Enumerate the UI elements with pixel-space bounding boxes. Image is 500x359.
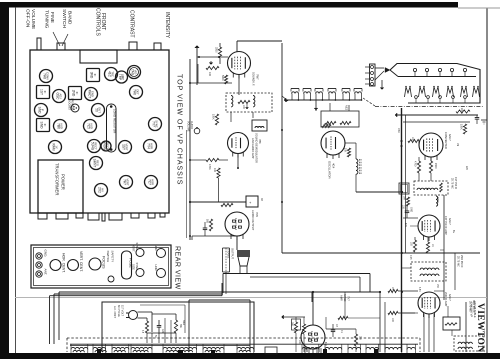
- electrolytic cap box: [246, 196, 258, 207]
- leader line band switch: [62, 34, 68, 46]
- svg-text:7W7: 7W7: [256, 74, 260, 80]
- svg-text:SWITCH: SWITCH: [106, 251, 110, 263]
- svg-text:2ND PIX IF: 2ND PIX IF: [460, 255, 463, 268]
- output trans drop wire: [225, 272, 227, 294]
- svg-text:IF: IF: [93, 74, 97, 77]
- svg-text:5A: 5A: [154, 335, 157, 338]
- osc coil: [356, 159, 358, 174]
- focus knob: [89, 258, 101, 270]
- svg-text:SOUND DEMODULATOR: SOUND DEMODULATOR: [255, 133, 259, 163]
- svg-text:6.8K: 6.8K: [418, 287, 420, 292]
- demod wires: [237, 154, 239, 169]
- svg-text:100K: 100K: [460, 124, 463, 130]
- 2nd pix IF dashed box: [411, 262, 446, 281]
- svg-text:SW2: SW2: [182, 320, 184, 326]
- ac plug: [129, 311, 138, 320]
- svg-text:SAFETY: SAFETY: [110, 251, 114, 263]
- audio box left drop: [222, 274, 224, 294]
- svg-text:25.75 MC: 25.75 MC: [457, 256, 460, 267]
- tube socket det: [130, 86, 143, 99]
- svg-text:220K: 220K: [460, 108, 463, 114]
- svg-text:TRC: TRC: [111, 71, 115, 77]
- contrast control shaft: [129, 42, 137, 50]
- svg-text:OSC: OSC: [397, 128, 399, 133]
- svg-text:ANT.: ANT.: [44, 269, 48, 276]
- tube 7W7 sound IF: [228, 52, 251, 75]
- 3rd if resistor row: [388, 289, 398, 292]
- svg-text:AUD: AUD: [60, 123, 64, 129]
- svg-text:A.C. ONLY: A.C. ONLY: [113, 306, 116, 319]
- cathode resistor 500: [209, 219, 212, 231]
- disc out wires: [230, 112, 232, 122]
- svg-text:OUT: OUT: [98, 107, 102, 113]
- svg-text:AND AUDIO AMP: AND AUDIO AMP: [251, 138, 255, 159]
- svg-text:1K: 1K: [391, 287, 393, 290]
- svg-text:GN: GN: [161, 329, 163, 333]
- sync tube pin wires: [304, 348, 306, 353]
- chassis bottom socket stubs: [38, 213, 47, 219]
- tube socket audio out: [84, 120, 97, 133]
- tube socket 5u4 rect: [88, 140, 101, 153]
- grid coil: [436, 196, 438, 206]
- coupling cap stack: [405, 210, 410, 212]
- page left edge line: [15, 7, 17, 353]
- antenna bus wire: [285, 99, 362, 101]
- antenna coil row: [291, 88, 299, 90]
- discriminator dashed box: [226, 93, 272, 112]
- b+ bus main: [401, 108, 403, 352]
- svg-text:VERT: VERT: [126, 178, 130, 185]
- svg-text:FOCUS: FOCUS: [102, 256, 106, 269]
- svg-text:LOAD RESISTOR: LOAD RESISTOR: [113, 109, 117, 134]
- svg-text:VERT: VERT: [125, 143, 129, 150]
- winding second row: [73, 350, 84, 352]
- sync resistor 2: [302, 324, 305, 334]
- svg-text:TRANS.: TRANS.: [227, 249, 231, 259]
- volume control shaft: [37, 38, 41, 50]
- tube socket aux rect: [101, 141, 111, 151]
- svg-text:10K: 10K: [391, 318, 393, 323]
- IF can snd: [37, 119, 50, 132]
- svg-text:CONTROLS: CONTROLS: [95, 8, 101, 36]
- svg-text:BAND: BAND: [66, 11, 72, 25]
- svg-text:VID: VID: [134, 70, 138, 75]
- svg-text:VOLUME: VOLUME: [187, 121, 190, 132]
- agc cap: [475, 117, 480, 119]
- svg-text:470K: 470K: [208, 164, 211, 170]
- svg-text:IF: IF: [43, 91, 47, 94]
- svg-text:0.05: 0.05: [409, 255, 411, 260]
- 2nd if cathode resistors: [413, 240, 416, 252]
- cathode wire: [190, 82, 232, 84]
- line cap: [157, 325, 162, 327]
- IF can 3rd IF: [87, 69, 100, 82]
- svg-text:SYNC.: SYNC.: [135, 263, 139, 271]
- svg-text:390: 390: [291, 322, 294, 327]
- terminal ant: [36, 271, 42, 277]
- volume pot: [206, 66, 219, 69]
- svg-text:3RD: 3RD: [89, 72, 93, 79]
- svg-text:6AC7: 6AC7: [448, 294, 452, 301]
- demod plate resistor: [217, 168, 220, 178]
- ac box inner left drop: [188, 300, 190, 352]
- winding groups: [71, 347, 88, 349]
- down arrow rotor: [381, 80, 383, 89]
- core blob 4: [323, 349, 327, 354]
- eq box: [443, 317, 460, 330]
- svg-text:7Y7: 7Y7: [347, 296, 351, 301]
- svg-text:4G4: 4G4: [332, 163, 336, 169]
- strip wires to switch: [375, 67, 384, 69]
- grid wire: [197, 56, 228, 58]
- svg-text:POWER: POWER: [61, 174, 66, 190]
- front controls opening: [80, 50, 117, 63]
- svg-text:1ST PIX IF AMP: 1ST PIX IF AMP: [444, 216, 448, 235]
- tube socket snd if: [35, 104, 48, 117]
- svg-text:NE2: NE2: [345, 105, 349, 111]
- disc coil 2: [253, 96, 255, 107]
- svg-text:B+: B+: [452, 230, 455, 234]
- svg-text:AMP: AMP: [121, 74, 125, 80]
- disc resistor: [238, 100, 250, 103]
- chassis top view outline: [30, 50, 169, 213]
- hor cent knob: [50, 260, 61, 271]
- tube oscillator: [321, 131, 345, 155]
- svg-text:AUDIO: AUDIO: [190, 121, 193, 129]
- wire left drop 2: [53, 294, 55, 344]
- left rail sound: [189, 59, 191, 240]
- wire bus C right corner: [221, 283, 223, 296]
- junction dots: [189, 82, 191, 84]
- sync feed wire: [312, 292, 314, 325]
- speaker socket: [71, 104, 79, 112]
- sync size jack: [136, 269, 144, 277]
- osc coil wires: [345, 142, 356, 144]
- svg-text:REAR VIEW: REAR VIEW: [174, 246, 181, 290]
- svg-text:REG: REG: [96, 160, 100, 166]
- svg-text:HOR: HOR: [150, 143, 154, 149]
- svg-text:39K: 39K: [359, 336, 361, 341]
- ac box inner top wire: [189, 299, 250, 301]
- rear view panel outer: [31, 245, 171, 288]
- resistor 100K conv: [463, 124, 466, 134]
- sync cap: [331, 329, 336, 331]
- conv cathode resistor 4700: [417, 161, 420, 173]
- line resistor: [145, 321, 148, 333]
- svg-text:AMP.: AMP.: [340, 295, 344, 301]
- svg-text:SYNC.: SYNC.: [135, 243, 139, 251]
- tube socket audio: [54, 120, 67, 133]
- audio bus second wire: [250, 276, 360, 278]
- svg-text:CONVERTER: CONVERTER: [444, 132, 448, 149]
- svg-text:1M: 1M: [456, 143, 458, 146]
- sync coupling resistor: [338, 316, 348, 319]
- sync extra wires: [325, 317, 327, 329]
- svg-text:GND.: GND.: [44, 250, 48, 258]
- ac extra wires: [140, 304, 185, 306]
- bottom black scan border: [0, 353, 500, 359]
- svg-text:AUDIO OUTPUT: AUDIO OUTPUT: [251, 210, 255, 231]
- band switch shaft: [57, 43, 65, 50]
- svg-text:SIZE: SIZE: [132, 264, 136, 270]
- tube 6AC7 2nd pix if: [418, 215, 440, 237]
- svg-text:OFF-ON: OFF-ON: [25, 9, 31, 28]
- b+ bus secondary: [405, 115, 407, 253]
- IF can 1st IF: [37, 86, 50, 99]
- IF can 2nd IF: [69, 87, 82, 100]
- svg-text:500K: 500K: [221, 75, 224, 81]
- tube socket extra: [116, 71, 128, 83]
- sound if plate wire: [237, 40, 282, 42]
- osc inject wire: [403, 121, 470, 123]
- disc arrows: [246, 108, 249, 110]
- tube 7C5 audio output: [225, 212, 249, 236]
- tube socket sync: [149, 118, 162, 131]
- core blob 2: [178, 350, 183, 355]
- svg-text:60 CYCLE: 60 CYCLE: [117, 305, 120, 317]
- winding bus line: [70, 343, 418, 345]
- right extra ticks: [410, 225, 418, 227]
- tube socket vid amp: [128, 66, 141, 79]
- svg-text:HV: HV: [101, 188, 105, 192]
- right column wires: [454, 253, 456, 290]
- svg-text:2ND: 2ND: [71, 90, 75, 97]
- decoupling resistor: [221, 203, 233, 206]
- wire bus C: [50, 295, 223, 297]
- tube 6AC7 converter: [419, 133, 443, 157]
- 3rd if pin wires: [423, 314, 425, 352]
- 7c5 plate wire: [236, 236, 238, 250]
- svg-text:TRANSFORMER: TRANSFORMER: [55, 163, 60, 195]
- dash-dot section line: [375, 106, 483, 108]
- safety switch: [108, 276, 114, 282]
- sync bus left drop: [311, 292, 313, 302]
- svg-text:400: 400: [213, 168, 216, 173]
- svg-text:1K: 1K: [431, 244, 433, 247]
- svg-text:ATV-25 TABLE: ATV-25 TABLE: [473, 301, 476, 318]
- svg-text:117 VOLT: 117 VOLT: [121, 305, 124, 316]
- svg-text:6AC7: 6AC7: [448, 134, 452, 141]
- svg-text:VERT. CENT.: VERT. CENT.: [79, 251, 83, 272]
- svg-text:CONV: CONV: [46, 72, 50, 80]
- svg-text:ADJ: ADJ: [59, 93, 63, 99]
- audio bus second drop: [359, 277, 361, 292]
- svg-text:400: 400: [208, 72, 211, 77]
- tube socket osc adj: [53, 90, 66, 103]
- tube socket vert amp: [120, 176, 133, 189]
- sound if pin wires: [238, 75, 240, 96]
- ne2 box: [321, 111, 359, 127]
- hor jack top: [157, 249, 166, 258]
- tube socket shunt: [90, 157, 103, 170]
- small terminal box: [265, 347, 277, 354]
- svg-text:IF: IF: [43, 124, 47, 127]
- b+ arrow up: [196, 47, 198, 85]
- disc coil 1: [231, 96, 233, 107]
- core blob 3: [211, 350, 215, 355]
- top black scan border: [0, 2, 458, 8]
- second sound rail: [186, 130, 188, 238]
- tube socket converter: [40, 70, 53, 83]
- svg-text:1ST: 1ST: [39, 89, 43, 95]
- svg-text:100K: 100K: [212, 114, 215, 120]
- svg-text:AUD: AUD: [90, 123, 94, 129]
- svg-text:SYNC: SYNC: [155, 120, 159, 128]
- svg-text:3300: 3300: [215, 47, 218, 53]
- ac box inner right drop: [249, 300, 251, 352]
- small coil box: [252, 120, 267, 131]
- tube socket hv rect: [49, 141, 62, 154]
- svg-text:SWITCH: SWITCH: [61, 9, 67, 28]
- fuse holder: [122, 251, 132, 279]
- black wedge: [385, 68, 390, 73]
- page right edge line: [486, 8, 488, 353]
- resistor 100K lower: [215, 114, 218, 125]
- svg-text:CHASSIS VP: CHASSIS VP: [470, 302, 473, 317]
- tube socket output: [92, 104, 105, 117]
- sync resistor 390: [294, 322, 297, 333]
- svg-text:6AC7: 6AC7: [448, 218, 452, 225]
- tube socket hor amp: [145, 176, 158, 189]
- svg-text:DET: DET: [136, 89, 140, 95]
- tube socket 2x2: [95, 184, 108, 197]
- 4th pix IF dashed box: [454, 336, 483, 351]
- svg-text:47K: 47K: [324, 342, 326, 347]
- svg-text:SOUND I.F.: SOUND I.F.: [252, 72, 256, 86]
- wire left drop 3: [58, 292, 60, 340]
- svg-text:TOP VIEW OF VP CHASSIS: TOP VIEW OF VP CHASSIS: [176, 74, 183, 185]
- tube 7F7 sync: [301, 325, 325, 349]
- svg-text:7B6: 7B6: [258, 139, 262, 144]
- core blob 1: [97, 349, 101, 354]
- sync arrow wire: [283, 316, 305, 318]
- 1st pix IF dashed box: [414, 181, 448, 195]
- hor jack bottom: [157, 269, 166, 278]
- volume pot circle: [194, 128, 200, 134]
- svg-text:39K: 39K: [403, 196, 405, 201]
- osc grid resistor: [347, 148, 350, 157]
- svg-text:FINE: FINE: [49, 12, 55, 23]
- svg-text:SOCKET: SOCKET: [68, 100, 71, 111]
- svg-text:IF: IF: [75, 92, 79, 95]
- ne2 feed wire: [315, 100, 317, 111]
- svg-text:HOR: HOR: [151, 179, 155, 185]
- svg-text:1ST PIX IF: 1ST PIX IF: [454, 177, 457, 190]
- agc resistor 220K: [456, 110, 470, 113]
- svg-text:1500: 1500: [434, 163, 437, 169]
- svg-text:HOR.: HOR.: [154, 245, 158, 252]
- switch bottom contacts: [415, 96, 418, 99]
- conv resistor 1500: [429, 161, 432, 173]
- ac section box: [102, 302, 254, 352]
- 2nd if grid wire: [403, 217, 418, 219]
- bypass cap: [203, 227, 208, 229]
- svg-text:VOLUME: VOLUME: [30, 9, 36, 29]
- sound box right wire: [281, 43, 283, 253]
- resistor 39K: [406, 197, 409, 206]
- svg-text:OUTPUT: OUTPUT: [231, 248, 235, 259]
- load resistor pill: [107, 104, 117, 152]
- osc out wire: [356, 191, 402, 193]
- svg-text:RECT: RECT: [94, 142, 98, 150]
- sync vert jack: [136, 249, 144, 257]
- core blob 5: [374, 349, 378, 354]
- audio box right drop: [369, 274, 371, 292]
- svg-text:FRONT: FRONT: [100, 13, 106, 30]
- svg-text:4700: 4700: [414, 161, 417, 167]
- right edge drop wire: [465, 302, 467, 352]
- audio box top wire: [223, 273, 370, 275]
- boxed resistor: [292, 319, 301, 330]
- svg-text:7C5: 7C5: [255, 212, 259, 217]
- terminal mid: [36, 262, 42, 268]
- svg-text:TUNING: TUNING: [44, 10, 50, 29]
- transformer dashed box: [67, 337, 420, 339]
- svg-text:RECT: RECT: [106, 142, 110, 150]
- sync right drops: [379, 292, 381, 352]
- svg-text:22K: 22K: [465, 166, 467, 171]
- switch bus: [398, 76, 476, 78]
- tube socket 1st vid: [85, 88, 98, 101]
- svg-text:END: END: [91, 91, 95, 97]
- sound box bottom wire: [282, 252, 480, 254]
- power transformer box: [38, 160, 83, 213]
- svg-text:INTENSITY: INTENSITY: [164, 12, 170, 39]
- tube socket hor mw: [144, 140, 157, 153]
- svg-text:500: 500: [206, 219, 209, 224]
- svg-text:10K: 10K: [344, 148, 347, 153]
- winding feet: [70, 350, 72, 354]
- svg-text:1X: 1X: [55, 145, 59, 148]
- svg-text:OSCILLATOR: OSCILLATOR: [328, 161, 332, 178]
- svg-text:IF: IF: [41, 109, 45, 112]
- screen resistor 100: [408, 139, 419, 142]
- terminal gnd: [36, 253, 42, 259]
- svg-text:SPEAKER: SPEAKER: [71, 98, 74, 110]
- cathode resistor 500K: [224, 75, 227, 84]
- junction dots bottom: [312, 291, 314, 293]
- svg-text:2ND IF AMP: 2ND IF AMP: [444, 292, 448, 307]
- agc wire: [396, 114, 478, 116]
- rear view panel inner: [34, 248, 169, 286]
- horizontal fold crease: [15, 297, 487, 299]
- wire left drop 1: [49, 296, 51, 344]
- svg-text:47K: 47K: [404, 223, 406, 228]
- band switch outline: [390, 64, 480, 104]
- switch stator contacts: [413, 68, 416, 71]
- contact strip: [370, 64, 376, 86]
- svg-text:SND: SND: [39, 122, 43, 130]
- svg-text:10K: 10K: [298, 340, 300, 345]
- tube socket 41c: [105, 68, 118, 81]
- surge resistor: [174, 320, 177, 333]
- ac drop wires: [146, 333, 148, 343]
- wire bus A: [59, 291, 380, 293]
- output transformer: [237, 250, 250, 257]
- right rail: [443, 195, 445, 300]
- b+ junction wire: [190, 201, 246, 203]
- electrolytic box: [399, 183, 409, 194]
- left black scan border: [0, 2, 9, 359]
- ant symbol right: [282, 96, 288, 101]
- switch rotor contacts: [405, 87, 412, 97]
- wire bus B: [54, 293, 223, 295]
- output trans box: [222, 248, 224, 272]
- svg-text:HOR. CENT.: HOR. CENT.: [62, 253, 66, 273]
- intensity control shaft: [154, 43, 161, 50]
- tube 7B6 demodulator: [228, 133, 249, 154]
- ac wires: [138, 311, 153, 313]
